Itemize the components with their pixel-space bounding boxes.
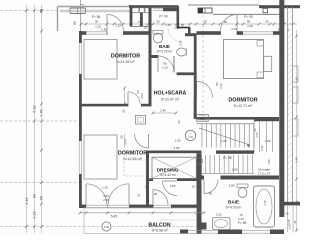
svg-text:1.20: 1.20 (287, 219, 291, 225)
svg-text:S=3.42 m²: S=3.42 m² (160, 173, 177, 177)
svg-text:HOL+SCARA: HOL+SCARA (154, 91, 187, 97)
svg-text:1.85: 1.85 (170, 184, 176, 188)
svg-text:1.00: 1.00 (267, 159, 271, 165)
svg-text:1.35: 1.35 (247, 24, 253, 28)
svg-text:7.45: 7.45 (40, 109, 44, 116)
svg-text:S=11.47 m²: S=11.47 m² (161, 97, 180, 101)
svg-text:90: 90 (154, 192, 158, 196)
svg-text:2.15: 2.15 (25, 197, 29, 204)
svg-text:2.50: 2.50 (103, 198, 109, 202)
svg-text:15: 15 (192, 185, 196, 189)
svg-text:3.35: 3.35 (295, 157, 299, 163)
svg-text:1.30: 1.30 (101, 28, 107, 32)
svg-text:60: 60 (265, 20, 269, 24)
svg-text:2.40: 2.40 (188, 135, 194, 139)
svg-text:1.00: 1.00 (255, 132, 259, 138)
svg-text:3.15: 3.15 (33, 211, 37, 218)
svg-text:1.70: 1.70 (263, 200, 267, 206)
svg-text:2.10: 2.10 (115, 24, 121, 28)
svg-text:1.20: 1.20 (238, 217, 244, 221)
svg-text:90: 90 (156, 20, 160, 24)
svg-text:90: 90 (122, 109, 126, 113)
svg-text:S=12.54 m²: S=12.54 m² (123, 157, 142, 161)
svg-text:2.80: 2.80 (104, 225, 110, 229)
svg-text:DORMITOR: DORMITOR (111, 54, 140, 60)
svg-text:50: 50 (33, 194, 37, 198)
svg-text:2.85: 2.85 (229, 183, 235, 187)
svg-text:P= 98: P= 98 (223, 156, 232, 160)
svg-text:3.10: 3.10 (231, 27, 237, 31)
svg-text:15: 15 (144, 185, 148, 189)
svg-text:P= 90: P= 90 (159, 15, 168, 19)
svg-text:BAIE: BAIE (159, 44, 170, 49)
svg-text:1.40: 1.40 (160, 109, 166, 113)
svg-text:1.20: 1.20 (216, 212, 222, 216)
svg-text:1.30: 1.30 (102, 186, 108, 190)
svg-text:P= 98: P= 98 (92, 15, 101, 19)
svg-text:85: 85 (40, 196, 44, 200)
svg-text:70: 70 (204, 20, 208, 24)
svg-text:DORMITOR: DORMITOR (118, 151, 147, 157)
svg-text:60: 60 (181, 23, 185, 27)
svg-text:S=4.76 m²: S=4.76 m² (226, 206, 243, 210)
svg-text:2.30: 2.30 (260, 145, 264, 151)
svg-text:75: 75 (137, 194, 141, 198)
svg-text:5.45: 5.45 (111, 214, 117, 218)
svg-text:80: 80 (120, 135, 124, 138)
svg-text:1.05: 1.05 (221, 139, 227, 143)
svg-text:2.85: 2.85 (232, 168, 238, 172)
svg-text:BAIE: BAIE (228, 200, 239, 205)
svg-text:2.10: 2.10 (219, 83, 223, 89)
svg-text:DORMITOR: DORMITOR (228, 98, 257, 104)
svg-text:P= 98: P= 98 (238, 221, 247, 225)
svg-text:90: 90 (247, 20, 251, 24)
svg-text:1.02: 1.02 (265, 139, 271, 143)
svg-text:90: 90 (95, 20, 99, 24)
svg-text:S=8.58 m²: S=8.58 m² (152, 229, 169, 233)
svg-text:S=12.71 m²: S=12.71 m² (234, 104, 253, 108)
svg-text:S=11.55 m²: S=11.55 m² (116, 60, 135, 64)
svg-text:2.04: 2.04 (140, 93, 144, 99)
svg-text:2.10: 2.10 (162, 66, 168, 70)
svg-text:2.04: 2.04 (124, 139, 128, 145)
svg-text:80: 80 (209, 191, 213, 195)
svg-text:85: 85 (73, 21, 77, 25)
svg-text:1.85: 1.85 (174, 146, 180, 150)
svg-text:1.20: 1.20 (288, 224, 292, 230)
svg-text:85: 85 (40, 9, 44, 13)
svg-text:6.15: 6.15 (33, 105, 37, 112)
svg-text:P= 90: P= 90 (244, 15, 253, 19)
svg-text:17.5 x 27: 17.5 x 27 (258, 172, 271, 176)
svg-text:S=3.78 m²: S=3.78 m² (157, 50, 174, 54)
svg-text:2.05: 2.05 (179, 40, 183, 46)
svg-text:80: 80 (136, 90, 140, 94)
svg-text:1.95: 1.95 (165, 23, 171, 27)
svg-text:1.90: 1.90 (175, 138, 181, 142)
